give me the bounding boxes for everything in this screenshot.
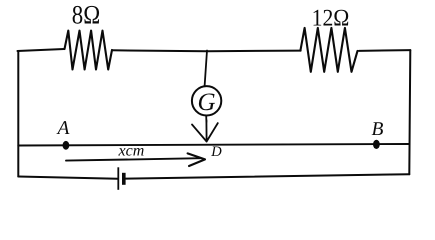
wire galvanometer tap from top wire (205, 51, 207, 87)
wire bottom-right segment (126, 174, 410, 178)
wire bridge A–B (18, 144, 409, 146)
xcm measurement arrow (66, 158, 201, 160)
wire left vertical (17, 51, 19, 177)
wire galvanometer to jockey arrow (205, 116, 207, 123)
svg-text:G: G (197, 89, 215, 116)
svg-text:A: A (56, 118, 70, 139)
wire bottom-left segment (18, 177, 118, 179)
wire top-left segment (18, 49, 65, 51)
svg-text:12Ω: 12Ω (312, 6, 350, 32)
svg-text:B: B (372, 119, 384, 140)
svg-text:8Ω: 8Ω (72, 0, 100, 29)
resistor R2 (300, 28, 357, 72)
arrow jockey contact at D (205, 120, 207, 142)
wire top-right segment (359, 49, 410, 52)
battery long plate (+) (117, 167, 119, 190)
svg-text:D: D (210, 144, 222, 160)
resistor R1 (65, 31, 113, 70)
wire top middle segment (112, 49, 301, 52)
node A dot (63, 141, 70, 150)
wire right vertical (409, 50, 410, 174)
svg-text:xcm: xcm (118, 143, 145, 160)
node B dot (373, 140, 380, 149)
galvanometer G (192, 86, 221, 115)
battery short thick plate (−) (122, 173, 126, 185)
